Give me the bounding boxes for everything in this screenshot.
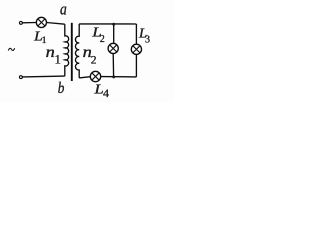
svg-text:1: 1	[42, 36, 47, 46]
svg-text:2: 2	[91, 55, 97, 67]
svg-text:b: b	[58, 80, 65, 97]
svg-text:2: 2	[100, 34, 105, 45]
svg-text:4: 4	[103, 86, 109, 100]
svg-text:a: a	[60, 0, 67, 19]
svg-text:3: 3	[145, 35, 150, 46]
svg-text:1: 1	[55, 53, 61, 67]
